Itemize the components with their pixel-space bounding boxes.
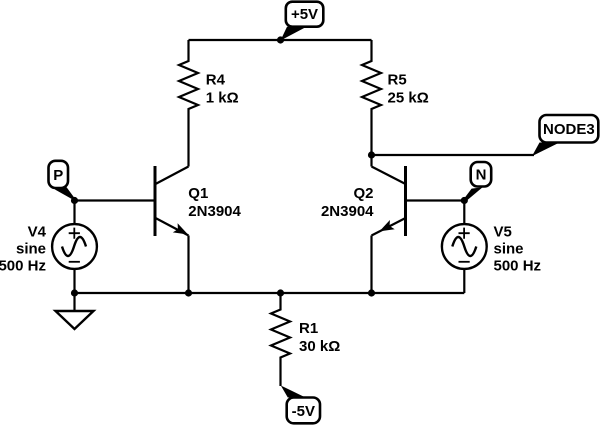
svg-text:V5: V5 [494,224,512,241]
svg-text:2N3904: 2N3904 [321,203,374,220]
svg-text:+5V: +5V [291,6,318,23]
wire P node to V4 [73,201,75,225]
power -5V callout box [281,386,320,424]
svg-text:V4: V4 [28,224,47,241]
wire Q2 collector stub [370,155,372,167]
node +5V junction dot [277,36,284,43]
source V5 [442,224,541,275]
resistor R5 [362,40,429,155]
svg-text:2N3904: 2N3904 [188,203,241,220]
svg-text:R4: R4 [206,71,226,88]
node NODE3 junction dot [368,151,375,158]
svg-text:P: P [53,167,63,184]
wire NODE3 net [372,154,535,156]
node N junction dot [461,197,468,204]
wire V5 to bottom rail [463,269,465,293]
transistor Q2 [321,166,406,236]
node R1 junction dot [277,289,284,296]
svg-text:sine: sine [494,241,524,258]
svg-text:NODE3: NODE3 [543,121,595,138]
node Q2 emitter junction dot [368,289,375,296]
node ground junction dot [71,289,78,296]
wire ground stub [73,293,75,311]
svg-text:Q1: Q1 [188,185,208,202]
wire bottom rail [75,292,465,294]
node P callout box [49,161,76,201]
node NODE3 callout box [532,115,598,156]
ground [56,311,94,329]
power +5V callout box [281,2,324,41]
wire V4 to bottom rail [73,269,75,293]
node Q1 emitter junction dot [185,289,192,296]
node N callout box [463,162,491,202]
svg-text:25 kΩ: 25 kΩ [388,89,429,106]
resistor R1 [271,293,340,386]
transistor Q1 [155,166,242,236]
svg-text:500 Hz: 500 Hz [494,258,542,275]
node P junction dot [71,197,78,204]
svg-text:R5: R5 [388,71,407,88]
svg-text:30 kΩ: 30 kΩ [299,338,340,355]
wire Q2 emitter to bottom rail [370,236,372,294]
wire N node to V5 [463,201,465,225]
source V4 [0,224,97,275]
svg-text:1 kΩ: 1 kΩ [206,89,239,106]
wire Q1 base [75,199,156,201]
wire Q1 emitter to bottom rail [187,236,189,294]
svg-text:sine: sine [16,241,46,258]
svg-text:Q2: Q2 [353,185,373,202]
svg-text:N: N [476,167,487,184]
wire Q2 base [406,199,465,201]
svg-text:-5V: -5V [292,403,315,420]
resistor R4 [179,40,239,167]
svg-text:500 Hz: 500 Hz [0,258,46,275]
svg-text:R1: R1 [299,320,318,337]
wire top rail [189,39,372,41]
